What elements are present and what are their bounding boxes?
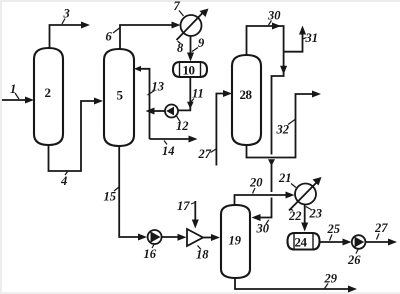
svg-text:4: 4 (60, 174, 67, 188)
svg-text:3: 3 (63, 7, 70, 21)
drum 24 (288, 233, 320, 250)
stream 25 (320, 239, 352, 246)
svg-text:14: 14 (162, 144, 175, 158)
svg-text:2: 2 (45, 85, 51, 100)
stream 4 wire (49, 98, 104, 172)
svg-text:17: 17 (177, 199, 190, 213)
label 12 (176, 116, 189, 133)
pump 16 (148, 230, 162, 244)
svg-text:27: 27 (198, 147, 212, 161)
stream 29 wire (235, 278, 357, 293)
label 14 (162, 141, 175, 159)
label 21 (278, 171, 296, 188)
label 27 feed (198, 147, 217, 161)
pump 16 outlet wire (162, 234, 187, 241)
compressor 18 (187, 229, 203, 246)
svg-text:15: 15 (104, 190, 117, 204)
drum 10 (173, 62, 207, 77)
svg-text:16: 16 (144, 247, 157, 261)
column 5 (104, 49, 134, 146)
svg-text:6: 6 (106, 30, 113, 44)
svg-text:29: 29 (324, 272, 338, 286)
svg-text:12: 12 (176, 119, 189, 133)
label 3 (62, 7, 70, 25)
stream 27 feed wire (216, 90, 232, 166)
stream 6 wire (120, 22, 181, 50)
svg-text:28: 28 (240, 87, 253, 102)
label 17 (177, 199, 195, 213)
label 29 (324, 272, 338, 289)
column 19 (221, 205, 250, 278)
label 27 right (374, 221, 388, 240)
compressor 18 outlet wire (203, 234, 220, 241)
label 30 top (267, 9, 281, 26)
pump 12 (165, 105, 178, 118)
svg-text:26: 26 (347, 253, 361, 267)
label 31 (303, 31, 318, 45)
stream 23 wire (301, 205, 308, 232)
column 28 (232, 55, 261, 145)
svg-text:32: 32 (276, 123, 290, 137)
stream 14 (150, 136, 198, 143)
label 20 (249, 176, 263, 194)
label 11 (191, 87, 204, 103)
svg-text:20: 20 (249, 176, 263, 190)
svg-text:30: 30 (267, 9, 281, 23)
stream 9 (187, 36, 194, 62)
label 22 (288, 209, 302, 224)
svg-text:10: 10 (183, 63, 195, 78)
label 15 (104, 187, 120, 204)
svg-text:25: 25 (327, 222, 341, 236)
label 23 (306, 207, 322, 221)
svg-text:22: 22 (288, 209, 302, 223)
stream 3 (50, 22, 91, 49)
stream 27 outlet (366, 239, 398, 246)
stream 20 wire (235, 192, 295, 206)
label 6 (106, 28, 120, 44)
svg-text:19: 19 (229, 234, 242, 248)
stream 31 wire (284, 26, 306, 52)
pump 26 (352, 235, 366, 249)
svg-text:30: 30 (256, 222, 270, 236)
label 25 (327, 222, 341, 241)
label 13 (148, 80, 165, 96)
stream 13 reflux wire (134, 66, 150, 139)
stream 30 top wire (247, 23, 284, 56)
stream 30 down wire (252, 52, 288, 221)
svg-text:21: 21 (278, 171, 292, 185)
stream 17 (192, 201, 199, 229)
svg-text:5: 5 (117, 88, 124, 103)
stream 32 wire (247, 91, 322, 158)
stream 11 wire (179, 78, 194, 111)
label 16 (144, 245, 157, 262)
heat exchanger 23 (289, 177, 322, 211)
column 2 (34, 48, 63, 145)
heat exchanger 7 (177, 9, 209, 41)
label 7 (174, 0, 184, 16)
pump 12 outlet wire (146, 108, 166, 115)
label 8 (177, 41, 184, 55)
svg-text:24: 24 (295, 235, 308, 250)
label 4 (60, 171, 68, 188)
svg-text:27: 27 (374, 221, 388, 235)
label 26 (347, 250, 361, 268)
svg-text:18: 18 (196, 248, 209, 262)
label 1 (10, 82, 19, 99)
stream 15 wire (119, 146, 147, 241)
stream 1 (2, 97, 34, 104)
label 18 (196, 246, 209, 262)
label 30 lower (256, 220, 270, 236)
svg-text:9: 9 (198, 36, 205, 50)
label 32 (276, 120, 296, 137)
label 9 (192, 36, 205, 52)
